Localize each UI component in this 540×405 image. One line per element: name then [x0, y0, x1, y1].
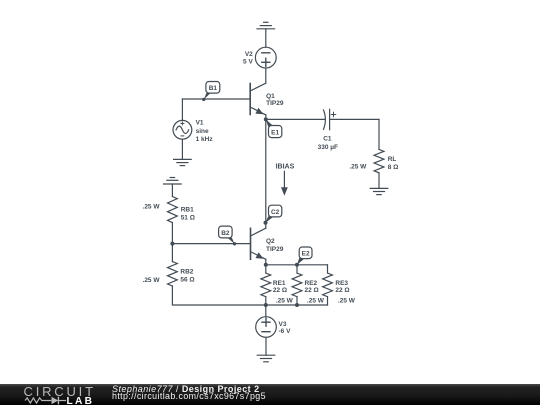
- wire Q2 emitter down: [265, 259, 267, 265]
- svg-text:22 Ω: 22 Ω: [335, 287, 349, 294]
- svg-text:.25 W: .25 W: [349, 163, 367, 170]
- resistor RE2: [292, 265, 302, 305]
- label RB2 value: [143, 269, 195, 284]
- svg-text:V1: V1: [196, 119, 204, 126]
- wire V1 bottom: [181, 139, 183, 159]
- svg-text:E1: E1: [271, 129, 279, 136]
- svg-text:TIP29: TIP29: [266, 100, 284, 107]
- CircuitLab logo: [0, 384, 100, 405]
- capacitor C1: [324, 109, 336, 129]
- resistor RE3: [323, 265, 333, 305]
- wire base of Q1: [182, 98, 250, 100]
- ground (below RL): [370, 188, 388, 194]
- label Q1: [266, 93, 284, 107]
- svg-text:1 kHz: 1 kHz: [196, 136, 214, 143]
- svg-text:.25 W: .25 W: [307, 298, 325, 305]
- wire rail to V3: [265, 305, 267, 317]
- svg-text:RB1: RB1: [181, 206, 194, 213]
- voltage source V1 (sine): [173, 120, 192, 139]
- ground (below V3): [257, 355, 275, 362]
- junction RE1 top: [264, 263, 268, 267]
- node flag B1: [202, 82, 220, 102]
- annotation IBIAS arrow: [281, 171, 288, 196]
- svg-text:V3: V3: [279, 321, 287, 328]
- svg-text:LAB: LAB: [67, 396, 95, 405]
- wire RL to ground: [378, 173, 380, 189]
- ground (above RB1): [164, 178, 182, 197]
- voltage source V3: [256, 317, 277, 338]
- svg-text:.25 W: .25 W: [276, 298, 294, 305]
- svg-text:22 Ω: 22 Ω: [305, 287, 319, 294]
- node flag B2: [219, 226, 237, 245]
- svg-text:sine: sine: [196, 128, 209, 135]
- svg-text:RE1: RE1: [273, 280, 286, 287]
- wire IBIAS net (E1 down to C2): [265, 119, 267, 228]
- node flag E2: [297, 247, 312, 265]
- svg-text:-6 V: -6 V: [279, 328, 292, 335]
- label V2 value: [243, 51, 253, 65]
- wire base of Q2: [172, 243, 250, 245]
- svg-text:51 Ω: 51 Ω: [181, 214, 195, 221]
- label RE2 value: [305, 280, 325, 305]
- svg-text:330 µF: 330 µF: [318, 144, 338, 151]
- junction RE2 bottom: [295, 303, 299, 307]
- label RB1 value: [143, 204, 195, 222]
- wire RB2 to bottom rail: [172, 286, 265, 305]
- svg-text:Q1: Q1: [266, 93, 275, 100]
- svg-text:TIP29: TIP29: [266, 246, 284, 253]
- svg-text:22 Ω: 22 Ω: [273, 287, 287, 294]
- ground (top, above V2): [257, 22, 275, 47]
- voltage source V2: [255, 47, 276, 68]
- label RL value: [349, 156, 398, 171]
- svg-text:56 Ω: 56 Ω: [180, 277, 194, 284]
- wire V2 to Q1 collector: [250, 68, 266, 91]
- svg-text:V2: V2: [245, 51, 253, 58]
- resistor RL: [374, 149, 384, 172]
- svg-text:8 Ω: 8 Ω: [388, 164, 399, 171]
- label Q2: [266, 238, 284, 253]
- junction RB1/RB2/base: [170, 242, 174, 246]
- svg-text:.25 W: .25 W: [143, 204, 161, 211]
- resistor RB1: [167, 197, 177, 223]
- junction RE1 bottom / V3: [264, 303, 268, 307]
- junction RE2 top: [295, 263, 299, 267]
- wire junction to RB2: [171, 244, 173, 262]
- transistor Q2: [251, 228, 266, 259]
- label C1 value: [318, 136, 338, 152]
- label V3 value: [279, 321, 292, 335]
- svg-text:C1: C1: [323, 136, 332, 143]
- svg-text:B2: B2: [221, 230, 230, 237]
- wire V1 top: [181, 99, 183, 120]
- svg-text:IBIAS: IBIAS: [276, 163, 295, 170]
- wire top rail (emitters): [266, 264, 328, 266]
- wire V3 to ground: [265, 337, 267, 355]
- footer bar: [0, 384, 540, 405]
- node flag C2: [264, 205, 282, 225]
- node flag E1: [264, 117, 282, 137]
- resistor RB2: [167, 262, 177, 287]
- wire C1 to RL: [330, 119, 379, 149]
- svg-text:Q2: Q2: [266, 238, 275, 245]
- wire Q1 emitter to node E1: [265, 115, 267, 120]
- svg-text:.25 W: .25 W: [143, 277, 161, 284]
- transistor Q1: [250, 84, 266, 115]
- svg-text:RB2: RB2: [180, 269, 193, 276]
- ground (below V1): [174, 159, 192, 165]
- wire bottom rail: [266, 304, 328, 306]
- svg-text:RL: RL: [388, 156, 397, 163]
- label V1 value: [196, 119, 214, 143]
- svg-text:RE2: RE2: [305, 280, 318, 287]
- svg-text:5 V: 5 V: [243, 58, 253, 65]
- label RE3 value: [335, 280, 355, 305]
- svg-text:E2: E2: [302, 251, 310, 258]
- wire E1 to C1: [266, 118, 326, 120]
- svg-text:C2: C2: [271, 209, 280, 216]
- svg-text:.25 W: .25 W: [338, 298, 356, 305]
- svg-text:RE3: RE3: [335, 280, 348, 287]
- label RE1 value: [273, 280, 294, 305]
- svg-text:B1: B1: [209, 85, 218, 92]
- wire RB1 to junction: [171, 223, 173, 244]
- resistor RE1: [261, 265, 271, 305]
